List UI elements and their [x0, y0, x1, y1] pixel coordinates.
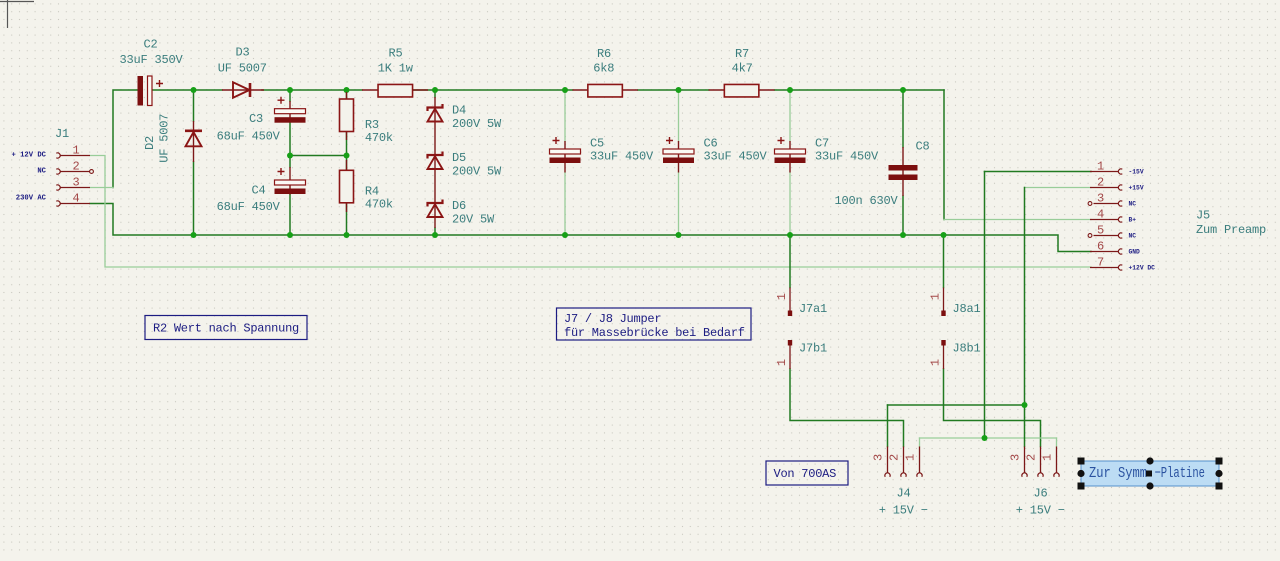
svg-text:R3: R3 [365, 118, 379, 132]
svg-text:-15V: -15V [1129, 169, 1144, 176]
capacitor C4 symbol [275, 168, 306, 194]
wire -15V to J4 pin1 [919, 438, 921, 447]
junction bottom bus x=346.5 [344, 232, 350, 238]
resistor R5 leads [362, 89, 428, 91]
text box J7 / J8 Jumper fuer Massebruecke bei Bedarf [557, 308, 752, 340]
resistor R3 body [340, 99, 354, 132]
junction top bus x=346.5 [344, 87, 350, 93]
zener diode D6 symbol [428, 200, 443, 218]
resistor R3 leads [346, 92, 348, 140]
svg-text:C5: C5 [590, 137, 604, 151]
wire J1 pin3 stub [90, 187, 113, 189]
wire bottom bus from J1 pin4 [90, 204, 903, 236]
wire C3-C4 mid [289, 123, 291, 168]
wire -15V to J6 pin1 [1056, 438, 1058, 447]
svg-text:Zum Preamp: Zum Preamp [1196, 223, 1266, 237]
svg-text:für Massebrücke bei Bedarf: für Massebrücke bei Bedarf [564, 326, 745, 340]
svg-text:UF 5007: UF 5007 [158, 114, 172, 163]
svg-text:D6: D6 [452, 199, 466, 213]
svg-text:7: 7 [1097, 256, 1104, 270]
text box Von 700AS [766, 461, 848, 485]
resistor R5 body [378, 84, 413, 97]
wire C5 top [564, 90, 566, 141]
wire C6 bottom [678, 173, 680, 236]
wire -15V vertical [984, 172, 986, 439]
svg-text:470k: 470k [365, 131, 393, 145]
svg-text:200V 5W: 200V 5W [452, 165, 502, 179]
wire C6 top [678, 90, 680, 141]
capacitor C8 symbol [889, 165, 918, 180]
svg-text:1: 1 [72, 144, 79, 158]
connector J1 pin 3 [56, 185, 90, 190]
connector J6 pin 1 [1054, 447, 1059, 477]
capacitor C6 symbol [663, 137, 694, 163]
wire D3 to R5 [262, 89, 362, 91]
junction top bus x=565 [562, 87, 568, 93]
svg-text:C7: C7 [815, 137, 829, 151]
zener diode D5 symbol [428, 152, 443, 170]
svg-text:3: 3 [72, 176, 79, 190]
capacitor C2 symbol [138, 76, 164, 106]
svg-text:33uF 450V: 33uF 450V [704, 150, 768, 164]
wire zener chain leads [434, 97, 436, 228]
svg-text:470k: 470k [365, 198, 393, 212]
svg-text:Zur Symm: Zur Symm [1089, 465, 1147, 482]
connector J1 pin 4 [56, 201, 90, 206]
svg-text:J4: J4 [896, 487, 910, 501]
svg-text:UF 5007: UF 5007 [218, 62, 267, 76]
svg-text:4: 4 [1097, 208, 1104, 222]
zener diode D4 symbol [428, 104, 443, 122]
svg-text:+ 15V −: + 15V − [1016, 504, 1065, 518]
wire +15V vertical to J6 pin3 [1024, 188, 1026, 447]
svg-text:200V 5W: 200V 5W [452, 117, 502, 131]
junction R3/R4 mid node [344, 153, 350, 159]
wire R7 to B+ corner [775, 89, 944, 91]
connector J6 pin 3 [1022, 447, 1027, 477]
resistor R7 body [724, 84, 759, 97]
wire R4 bottom lead [346, 203, 348, 235]
svg-text:5: 5 [1097, 224, 1104, 238]
junction bottom bus x=193.5 [191, 232, 197, 238]
wire C7 top [789, 90, 791, 141]
capacitor C4 leads [289, 167, 291, 195]
svg-text:R5: R5 [388, 47, 402, 61]
svg-text:20V 5W: 20V 5W [452, 213, 495, 227]
wire C7 bottom [789, 173, 791, 236]
connector J4 pin 2 [901, 447, 906, 477]
svg-text:J6: J6 [1033, 487, 1047, 501]
junction bottom bus x=903 [900, 232, 906, 238]
svg-text:230V AC: 230V AC [16, 195, 47, 203]
capacitor C5 leads [564, 141, 566, 173]
svg-text:+ 15V −: + 15V − [879, 504, 928, 518]
svg-text:1: 1 [929, 293, 943, 300]
jumper J7a1 [788, 288, 792, 317]
resistor R4 leads [346, 160, 348, 212]
svg-text:6: 6 [1097, 240, 1104, 254]
svg-text:33uF 450V: 33uF 450V [815, 150, 879, 164]
selected text box Zur Symm-Platine [1077, 457, 1222, 489]
svg-text:3: 3 [1008, 454, 1022, 461]
wire D6 bottom stub [434, 228, 436, 235]
svg-text:1: 1 [929, 359, 943, 366]
wire -15V bottom rail [920, 437, 1057, 439]
jumper J8a1 [941, 288, 945, 317]
wire J7b1 to J4 pin2 [790, 369, 904, 447]
wire B+ vertical drop [943, 90, 945, 220]
svg-text:NC: NC [1129, 201, 1137, 208]
wire C2 to D2/D3 node [152, 89, 222, 91]
junction bottom bus x=943.5 [941, 232, 947, 238]
svg-text:2: 2 [1024, 454, 1038, 461]
wire D2 top lead [193, 90, 195, 121]
svg-text:4k7: 4k7 [732, 62, 753, 76]
connector J5 pin 2 [1090, 185, 1122, 190]
wire B+ to J5 pin4 [944, 219, 1091, 221]
wire C8 bottom [902, 196, 904, 235]
resistor R6 leads [573, 89, 638, 91]
svg-text:Von 700AS: Von 700AS [774, 467, 837, 481]
svg-text:NC: NC [37, 168, 46, 176]
jumper J8b1 [941, 340, 945, 369]
svg-text:D3: D3 [235, 46, 249, 60]
frame corner horizontal line [0, 1, 34, 3]
diode D3 symbol [233, 82, 250, 97]
wire J1 pin3 riser to C2 [113, 90, 138, 188]
connector J5 pin 5 [1088, 233, 1122, 238]
svg-text:2: 2 [72, 160, 79, 174]
svg-text:J7a1: J7a1 [799, 302, 827, 316]
svg-text:4: 4 [72, 192, 79, 206]
svg-text:C2: C2 [143, 38, 157, 52]
wire R5 to R6 [413, 89, 573, 91]
wire +15V to J5 pin2 [1025, 187, 1092, 189]
svg-text:C6: C6 [704, 137, 718, 151]
junction +15V rail [1022, 402, 1028, 408]
wire R3-R4 mid [346, 132, 348, 171]
svg-text:+12V DC: +12V DC [1129, 265, 1156, 272]
svg-text:B+: B+ [1129, 217, 1137, 224]
svg-text:R4: R4 [365, 185, 379, 199]
svg-text:6k8: 6k8 [593, 62, 614, 76]
text box R2 Wert nach Spannung [145, 316, 307, 340]
wire C3 top [289, 90, 291, 101]
wire C7 node down to J7a1 [789, 235, 791, 288]
diode D2 leads [193, 121, 195, 162]
junction top bus x=790 [787, 87, 793, 93]
junction bottom bus x=290 [287, 232, 293, 238]
resistor R6 body [588, 84, 623, 97]
wire +15V to J4 pin3 [887, 405, 889, 447]
svg-text:J8b1: J8b1 [953, 342, 981, 356]
capacitor C5 symbol [550, 137, 581, 163]
connector J6 pin 2 [1038, 447, 1043, 477]
connector J5 pin 4 [1090, 217, 1122, 222]
connector J5 pin 7 [1090, 265, 1122, 270]
diode D2 symbol [185, 131, 202, 147]
svg-text:R7: R7 [735, 47, 749, 61]
wire +12V DC J1 pin1 to J5 pin7 [90, 156, 1091, 268]
connector J4 pin 3 [885, 447, 890, 477]
junction top bus x=903 [900, 87, 906, 93]
svg-text:−Platine: −Platine [1155, 465, 1206, 482]
svg-text:33uF 350V: 33uF 350V [119, 53, 183, 67]
connector J1 pin 1 [56, 153, 90, 158]
junction top bus x=435 [432, 87, 438, 93]
capacitor C7 symbol [775, 137, 806, 163]
svg-text:33uF 450V: 33uF 450V [590, 150, 654, 164]
wire J8b1 to J6 pin2 [944, 369, 1041, 447]
svg-text:3: 3 [1097, 192, 1104, 206]
junction bottom bus x=565 [562, 232, 568, 238]
svg-text:J7b1: J7b1 [799, 342, 827, 356]
junction top bus x=193.5 [191, 87, 197, 93]
svg-text:1: 1 [1097, 160, 1104, 174]
junction -15V rail [982, 435, 988, 441]
svg-text:D5: D5 [452, 151, 466, 165]
wire R3 top lead [346, 90, 348, 99]
svg-text:J5: J5 [1196, 209, 1210, 223]
junction top bus x=678.5 [676, 87, 682, 93]
wire D4 top stub [434, 90, 436, 97]
connector J5 pin 1 [1090, 169, 1122, 174]
wire R6 to R7 [638, 89, 709, 91]
junction bottom bus x=435 [432, 232, 438, 238]
wire -15V to J5 pin1 [985, 171, 1092, 173]
svg-text:68uF 450V: 68uF 450V [217, 130, 281, 144]
svg-text:D2: D2 [143, 136, 157, 150]
svg-text:D4: D4 [452, 104, 466, 118]
svg-text:J1: J1 [55, 127, 69, 141]
resistor R4 body [340, 170, 354, 203]
capacitor C3 symbol [275, 97, 306, 123]
resistor R7 leads [709, 89, 775, 91]
svg-text:68uF 450V: 68uF 450V [217, 200, 281, 214]
svg-text:100n 630V: 100n 630V [835, 194, 899, 208]
svg-text:GND: GND [1129, 249, 1141, 256]
capacitor C3 leads [289, 101, 291, 123]
svg-text:1: 1 [775, 359, 789, 366]
wire D2 bottom lead [193, 162, 195, 235]
capacitor C6 leads [678, 141, 680, 173]
svg-text:C8: C8 [916, 140, 930, 154]
svg-text:J7 / J8 Jumper: J7 / J8 Jumper [564, 312, 661, 326]
svg-text:1K 1w: 1K 1w [378, 62, 414, 76]
svg-text:R6: R6 [597, 47, 611, 61]
svg-text:C4: C4 [252, 184, 266, 198]
svg-text:NC: NC [1129, 233, 1137, 240]
svg-text:C3: C3 [249, 112, 263, 126]
connector J4 pin 1 [917, 447, 922, 477]
svg-text:R2 Wert nach Spannung: R2 Wert nach Spannung [153, 322, 299, 336]
wire C3/C4 node to R3/R4 node [290, 155, 347, 157]
wire C8 top [902, 90, 904, 147]
connector J5 pin 6 [1090, 249, 1122, 254]
svg-text:2: 2 [1097, 176, 1104, 190]
connector J5 pin 3 [1088, 201, 1122, 206]
svg-text:1: 1 [903, 454, 917, 461]
connector J1 pin 2 [56, 169, 90, 174]
no-connect circle J1 pin 2 [90, 170, 94, 174]
svg-text:J8a1: J8a1 [953, 302, 981, 316]
wire bus down to J8a1 [943, 235, 945, 288]
junction bottom bus x=678.5 [676, 232, 682, 238]
diode D3 leads [222, 89, 264, 91]
capacitor C7 leads [789, 141, 791, 173]
svg-text:+15V: +15V [1129, 185, 1144, 192]
svg-text:1: 1 [1040, 454, 1054, 461]
frame corner vertical line [7, 0, 9, 28]
jumper J7b1 [788, 340, 792, 369]
svg-text:+ 12V DC: + 12V DC [11, 152, 46, 160]
wire GND to J5 pin6 [903, 235, 1091, 252]
wire C4 bottom [289, 195, 291, 236]
junction top bus x=290 [287, 87, 293, 93]
junction C3/C4 mid node [287, 153, 293, 159]
svg-text:1: 1 [775, 293, 789, 300]
svg-text:3: 3 [871, 454, 885, 461]
capacitor C8 leads [902, 147, 904, 196]
wire +15V bottom rail [888, 404, 1025, 406]
junction bottom bus x=790 [787, 232, 793, 238]
wire C5 bottom [564, 173, 566, 236]
svg-text:2: 2 [887, 454, 901, 461]
